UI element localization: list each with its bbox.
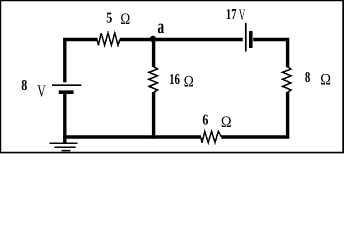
svg-text:V: V: [37, 82, 46, 101]
svg-text:Ω: Ω: [184, 73, 194, 90]
wire R3 to bottom-right corner: [221, 92, 289, 139]
battery V1 8V: [52, 85, 81, 92]
battery V2 17V: [246, 23, 251, 52]
svg-text:8: 8: [21, 78, 27, 94]
label 8 V value: [21, 78, 46, 101]
wire middle branch lower: [152, 92, 155, 139]
svg-text:Ω: Ω: [221, 114, 232, 131]
wire bottom left segment: [63, 135, 201, 138]
svg-text:17: 17: [226, 7, 237, 23]
wire left branch lower: [63, 94, 66, 143]
svg-text:Ω: Ω: [120, 11, 130, 28]
wire middle branch upper: [152, 40, 155, 67]
ground: [50, 143, 78, 150]
svg-text:5: 5: [106, 11, 112, 27]
wire R1 to node a: [120, 38, 154, 41]
label 5 ohm value: [106, 11, 130, 29]
resistor R1 zigzag 5 ohm: [97, 33, 120, 45]
wire top-left segment: [63, 38, 97, 41]
wire battery V2 to top-right corner: [253, 38, 289, 67]
label 16 ohm value: [169, 72, 194, 90]
svg-text:8: 8: [305, 70, 310, 86]
svg-text:6: 6: [202, 113, 208, 129]
wire node a to battery V2: [154, 38, 243, 41]
svg-text:a: a: [157, 16, 164, 38]
svg-text:16: 16: [169, 72, 180, 88]
wire left branch upper: [63, 38, 66, 82]
node a: [150, 16, 164, 42]
label 6 ohm value: [202, 113, 231, 132]
label 17 V value: [226, 7, 246, 24]
svg-text:Ω: Ω: [320, 72, 331, 89]
svg-text:V: V: [239, 7, 246, 24]
resistor R4 zigzag 6 ohm: [201, 131, 222, 142]
label 8 ohm value right: [305, 70, 331, 88]
resistor R3 zigzag 8 ohm: [283, 67, 291, 93]
resistor R2 zigzag 16 ohm: [149, 67, 158, 93]
